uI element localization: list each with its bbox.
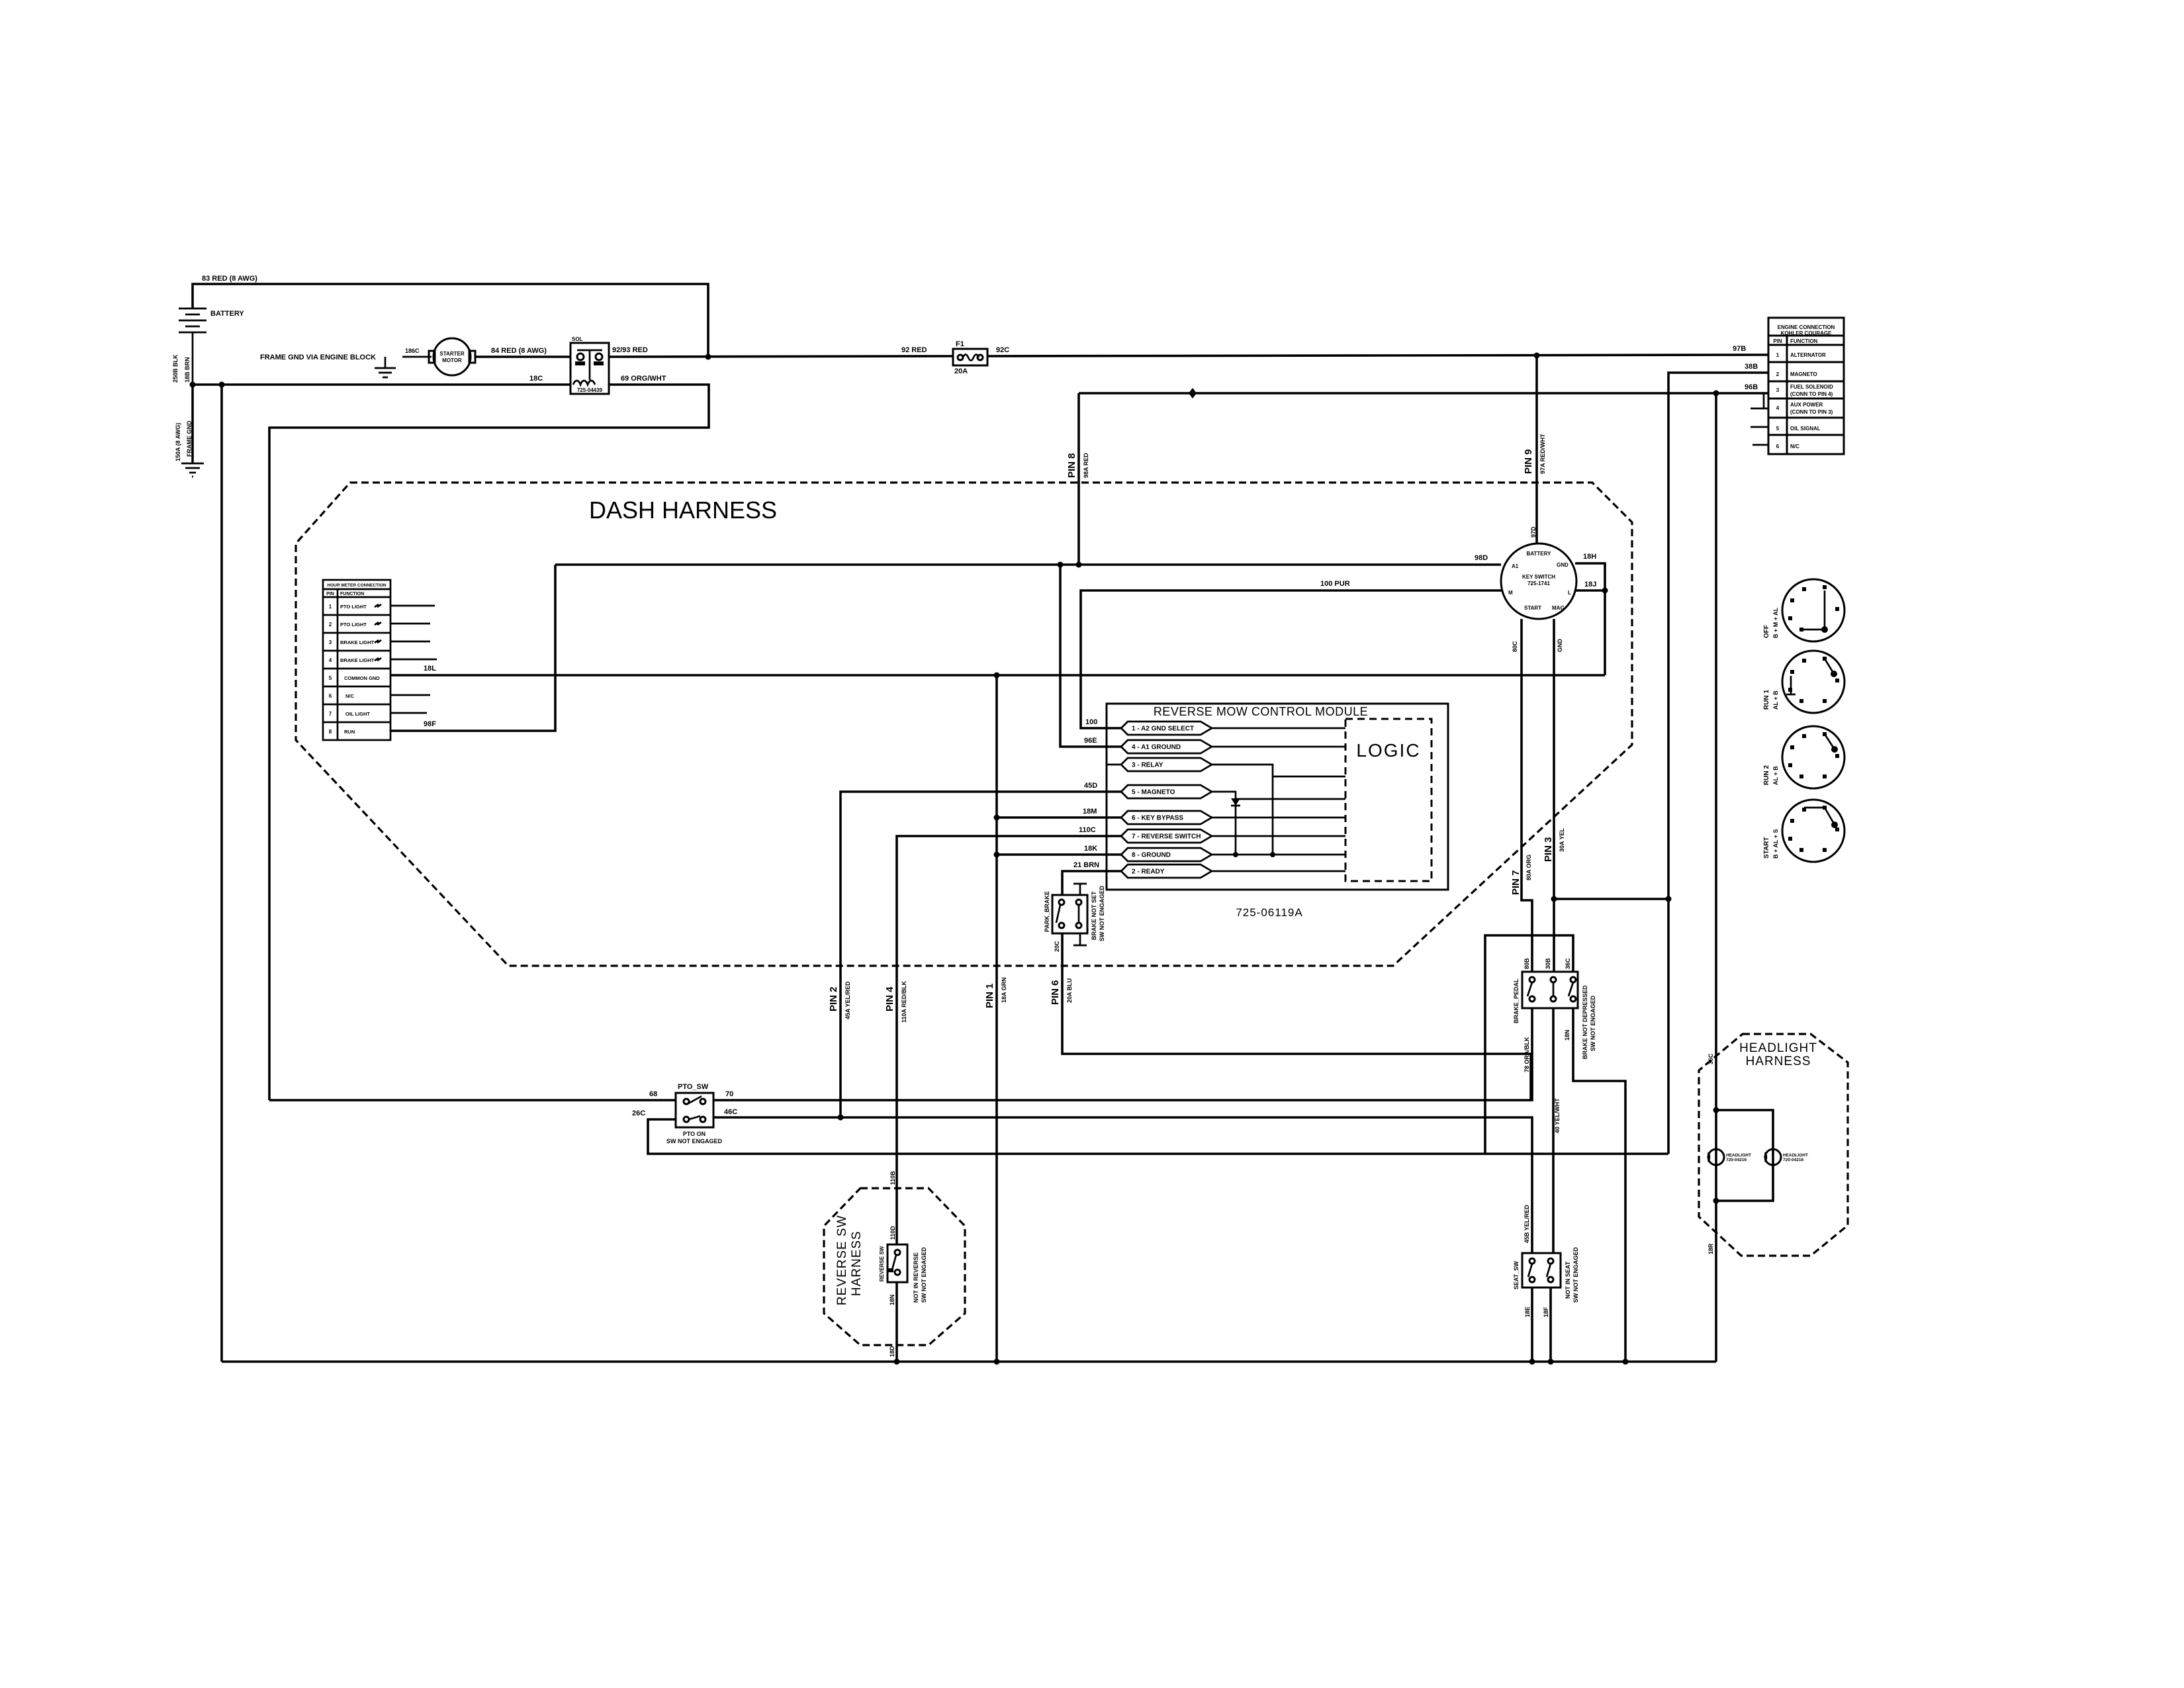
svg-text:PIN 1: PIN 1 [984,983,995,1008]
module internal wires to LOGIC [1212,727,1345,729]
svg-text:REVERSE SW: REVERSE SW [835,1215,849,1305]
svg-text:START: START [1763,837,1770,859]
svg-text:SW NOT ENGAGED: SW NOT ENGAGED [1590,995,1596,1051]
svg-text:18B BRN: 18B BRN [184,357,191,383]
svg-text:96E: 96E [1084,737,1097,745]
wire 78 ORA/BLK bottom-left lead [1524,1037,1530,1072]
seat switch leads to bottom bus [1531,1288,1533,1362]
node battery junction [190,382,196,388]
svg-text:2 - READY: 2 - READY [1132,868,1165,876]
svg-text:BRAKE NOT DEPRESSED: BRAKE NOT DEPRESSED [1582,985,1588,1059]
bottom ground bus wire [222,1360,1716,1363]
park brake switch PARK_BRAKE [1052,895,1087,933]
wire 70 to brake pedal [713,1008,1532,1100]
svg-text:4: 4 [1776,405,1780,411]
wire long left vertical to bottom [220,385,223,1362]
svg-text:45B YEL/RED: 45B YEL/RED [1524,1205,1530,1243]
wire 83 RED (8 AWG) top loop [193,284,708,357]
wire 18H (GND) [1575,563,1605,590]
svg-text:PARK_BRAKE: PARK_BRAKE [1044,891,1050,932]
dash harness outline [296,483,1632,966]
wire MAG down (PIN 3) [1553,619,1555,972]
svg-text:A1: A1 [1512,563,1519,569]
wire 38B magneto [1668,373,1768,1154]
conn to pin4 bracket [1764,393,1768,408]
headlight loop [1716,1110,1773,1201]
wire 40 YEL/WHT to seat switch [1552,1008,1555,1253]
wire 18M / 18K ground branch (PIN 1) [997,816,1121,819]
svg-text:BRAKE NOT SET: BRAKE NOT SET [1091,891,1097,940]
svg-text:BATTERY: BATTERY [210,310,244,318]
wire START down (PIN 7) [1522,619,1532,972]
PTO switch PTO_SW [676,1093,713,1127]
svg-text:PTO LIGHT: PTO LIGHT [340,604,367,610]
svg-text:OFF: OFF [1763,625,1770,638]
wire 100 PUR (M) [1081,590,1502,728]
svg-text:(CONN TO PIN 3): (CONN TO PIN 3) [1790,409,1833,415]
wire 26C to magneto bus [648,1119,1668,1154]
svg-text:725-1741: 725-1741 [1527,581,1550,586]
wire reverse switch to bottom bus [895,1282,898,1362]
svg-text:20C: 20C [1054,941,1060,952]
svg-text:80C: 80C [1512,641,1518,652]
svg-text:80B: 80B [1524,958,1530,969]
wire 46C to seat switch [713,1117,1532,1253]
svg-text:18N: 18N [1564,1029,1570,1041]
key position diagram OFF [1782,579,1844,641]
wire 92/93 RED [609,356,953,357]
svg-text:PIN 9: PIN 9 [1523,449,1534,474]
key position diagram RUN 1 [1782,651,1844,713]
svg-text:92/93 RED: 92/93 RED [612,346,648,354]
svg-text:PIN: PIN [1773,338,1782,344]
svg-text:3: 3 [329,639,332,645]
svg-text:150A (8 AWG): 150A (8 AWG) [175,423,181,461]
svg-text:REVERSE SW: REVERSE SW [879,1246,885,1282]
svg-text:L: L [1568,590,1571,596]
svg-text:97D: 97D [1530,526,1537,538]
svg-text:BRAKE LIGHT: BRAKE LIGHT [340,639,375,645]
park brake right stubs [1079,884,1081,895]
diode in module [1231,798,1240,806]
svg-text:45A YEL/RED: 45A YEL/RED [844,981,851,1019]
hour meter stub wires [390,605,435,607]
wire main power to engine table pin 1 (97B) [987,355,1768,356]
svg-text:SW NOT ENGAGED: SW NOT ENGAGED [1572,1246,1579,1303]
wire 36C right-top lead loop to magneto bus [1485,935,1573,1154]
svg-text:M: M [1508,590,1513,596]
svg-text:18K: 18K [1084,845,1097,853]
svg-text:21 BRN: 21 BRN [1073,861,1099,869]
svg-text:OIL SIGNAL: OIL SIGNAL [1790,426,1821,432]
svg-text:96B: 96B [1745,383,1758,391]
LOGIC box [1345,719,1432,881]
svg-text:186C: 186C [405,348,420,354]
svg-text:98D: 98D [1475,554,1488,562]
svg-text:B + M + AL: B + M + AL [1772,607,1779,638]
svg-text:FUNCTION: FUNCTION [340,592,364,596]
headlight harness outline [1699,1034,1848,1256]
svg-text:18N: 18N [889,1294,895,1305]
module pin 3 - RELAY [1121,758,1212,771]
key position diagram RUN 2 [1782,726,1844,788]
svg-text:46C: 46C [724,1108,737,1116]
svg-text:97A RED/WHT: 97A RED/WHT [1539,434,1546,474]
svg-text:PTO ON: PTO ON [683,1131,705,1137]
module pin 1 - A2 GND SELECT [1121,722,1212,735]
svg-text:PIN 4: PIN 4 [884,986,895,1011]
svg-text:18D: 18D [889,1346,895,1357]
wire 21 BRN to park brake [1062,871,1121,895]
svg-text:5: 5 [329,675,332,681]
svg-text:92 RED: 92 RED [901,346,927,354]
ground frame gnd below battery [191,385,194,463]
svg-text:83 RED (8 AWG): 83 RED (8 AWG) [202,275,257,283]
svg-text:BRAKE LIGHT: BRAKE LIGHT [340,657,375,663]
svg-text:PIN 8: PIN 8 [1066,453,1077,478]
solenoid 725-04439 [570,343,609,394]
svg-text:HARNESS: HARNESS [850,1231,864,1296]
svg-text:4 - A1 GROUND: 4 - A1 GROUND [1132,744,1181,751]
wire 18L common gnd [390,674,1605,677]
svg-text:18H: 18H [1583,553,1596,561]
svg-text:80A ORG: 80A ORG [1525,855,1532,880]
svg-text:B + AL + S: B + AL + S [1772,829,1779,859]
svg-text:N/C: N/C [345,693,355,699]
svg-text:SOL: SOL [572,336,583,342]
svg-text:36C: 36C [1707,1053,1714,1064]
svg-text:KEY SWITCH: KEY SWITCH [1522,574,1555,580]
svg-text:PIN 3: PIN 3 [1543,837,1554,862]
svg-text:1: 1 [1776,352,1780,358]
svg-text:FRAME GND VIA ENGINE BLOCK: FRAME GND VIA ENGINE BLOCK [260,353,376,361]
svg-text:18J: 18J [1584,581,1596,588]
svg-text:MAG: MAG [1552,605,1565,611]
svg-text:18E: 18E [1524,1307,1531,1317]
svg-text:AL + B: AL + B [1772,690,1779,710]
wire L/GND down to ground bus [1604,590,1606,675]
wire 36C long vertical from fuel solenoid line [1715,393,1717,1362]
svg-text:110B: 110B [889,1170,896,1185]
svg-text:F1: F1 [956,340,964,348]
svg-text:100 PUR: 100 PUR [1320,580,1350,588]
wire 69 ORG/WHT loop from solenoid coil to PTO 68 [269,385,709,1100]
wire magneto junction to 38B vertical [1554,898,1668,900]
svg-text:70: 70 [725,1090,733,1098]
svg-text:8: 8 [329,729,332,735]
svg-text:110C: 110C [1079,826,1096,834]
starter motor [433,338,471,375]
svg-text:REVERSE MOW CONTROL MODULE: REVERSE MOW CONTROL MODULE [1154,705,1368,718]
svg-text:26C: 26C [632,1109,645,1117]
svg-text:GND: GND [1557,639,1563,653]
svg-text:3 - RELAY: 3 - RELAY [1132,762,1163,769]
svg-text:GND: GND [1557,562,1569,568]
svg-text:SW NOT ENGAGED: SW NOT ENGAGED [921,1246,927,1303]
wire 98D (A1) [555,563,1501,566]
module pin 8 - GROUND [1121,848,1212,861]
svg-text:30A YEL: 30A YEL [1559,827,1565,852]
svg-text:18F: 18F [1543,1307,1549,1317]
wire 96B fuel solenoid [1079,392,1768,395]
svg-text:100: 100 [1085,718,1097,726]
svg-text:20A BLU: 20A BLU [1066,978,1073,1003]
svg-text:SW NOT ENGAGED: SW NOT ENGAGED [666,1138,723,1145]
svg-text:5 - MAGNETO: 5 - MAGNETO [1132,789,1175,796]
headlamp bulb [1708,1149,1724,1165]
svg-text:RUN 1: RUN 1 [1763,690,1770,710]
wire 98F run [390,565,555,731]
svg-text:38B: 38B [1745,363,1758,371]
splice on 96B [1189,388,1197,399]
wire 68 from solenoid loop to PTO [269,1099,676,1102]
svg-text:COMMON GND: COMMON GND [344,675,380,681]
svg-text:FRAME GND: FRAME GND [186,420,193,457]
svg-text:97B: 97B [1733,345,1746,353]
svg-text:45D: 45D [1084,782,1097,790]
svg-text:18L: 18L [424,665,436,673]
headlamp bulb [1765,1149,1781,1165]
svg-text:OIL LIGHT: OIL LIGHT [345,711,370,717]
wire 98A RED / PIN 8 vertical [1077,393,1080,565]
svg-text:98F: 98F [424,720,436,728]
svg-text:68: 68 [649,1090,657,1098]
svg-text:AL + B: AL + B [1772,766,1779,785]
key switch 725-1741 [1501,543,1576,619]
reverse switch REVERSE_SW [887,1244,907,1282]
svg-text:92C: 92C [996,346,1009,354]
hour meter connection table [323,580,390,740]
svg-text:ALTERNATOR: ALTERNATOR [1790,352,1826,358]
svg-text:84 RED (8 AWG): 84 RED (8 AWG) [491,347,547,355]
svg-text:69 ORG/WHT: 69 ORG/WHT [621,375,666,383]
wire 45D to PIN 2 [841,792,1121,1117]
wire 18N right-bottom lead to bottom bus [1573,1008,1625,1362]
stub n/c [1752,444,1768,446]
svg-text:98A RED: 98A RED [1083,453,1089,478]
brake pedal switch BRAKE_PEDAL [1522,972,1578,1008]
svg-text:7 - REVERSE SWITCH: 7 - REVERSE SWITCH [1132,833,1201,841]
svg-text:RUN: RUN [344,729,355,735]
svg-text:STARTER: STARTER [439,351,464,357]
svg-text:110D: 110D [889,1225,896,1240]
svg-text:PIN: PIN [326,592,334,596]
svg-text:110A RED/BLK: 110A RED/BLK [901,980,907,1023]
svg-text:MAGNETO: MAGNETO [1790,371,1817,377]
svg-text:LOGIC: LOGIC [1356,740,1420,761]
seat switch SEAT_SW [1522,1253,1561,1288]
svg-text:1: 1 [329,604,332,610]
module pin 2 - READY [1121,865,1212,878]
svg-text:PTO_SW: PTO_SW [678,1083,709,1091]
svg-text:HARNESS: HARNESS [1746,1055,1811,1068]
svg-text:HEADLIGHT: HEADLIGHT [1726,1153,1751,1158]
key position diagram START [1782,800,1844,862]
svg-text:PIN 2: PIN 2 [828,986,839,1011]
wire 18J (L) [1576,589,1605,592]
svg-text:2: 2 [329,622,332,628]
svg-text:78 ORA/BLK: 78 ORA/BLK [1524,1037,1530,1072]
svg-text:PTO LIGHT: PTO LIGHT [340,622,367,628]
svg-text:725-06119A: 725-06119A [1236,906,1302,919]
svg-text:720-04216: 720-04216 [1783,1158,1803,1162]
svg-text:6: 6 [329,693,332,699]
svg-text:HEADLIGHT: HEADLIGHT [1783,1153,1808,1158]
svg-text:30B: 30B [1545,958,1551,969]
svg-text:FUNCTION: FUNCTION [1790,338,1818,344]
svg-text:18R: 18R [1707,1243,1714,1254]
wire 96E vertical (A1 to module) [1060,565,1121,747]
svg-text:6 - KEY BYPASS: 6 - KEY BYPASS [1132,815,1183,822]
svg-text:5: 5 [1776,426,1780,432]
module pin 5 - MAGNETO [1121,785,1212,798]
battery [179,308,206,385]
svg-text:BRAKE_PEDAL: BRAKE_PEDAL [1513,978,1520,1023]
reverse sw harness outline [824,1188,965,1345]
svg-text:18A GRN: 18A GRN [1001,977,1007,1003]
svg-text:NOT IN REVERSE: NOT IN REVERSE [913,1252,919,1303]
svg-text:DASH HARNESS: DASH HARNESS [589,496,777,524]
module pin 7 - REVERSE SWITCH [1121,829,1212,843]
wire 20C PIN 6 20A BLU [1062,933,1531,1100]
svg-text:1 - A2 GND SELECT: 1 - A2 GND SELECT [1132,726,1194,733]
svg-text:(CONN TO PIN 4): (CONN TO PIN 4) [1790,391,1833,397]
svg-text:18C: 18C [529,375,543,383]
svg-text:7: 7 [329,711,332,717]
svg-text:4: 4 [329,657,332,663]
svg-text:FUEL SOLENOID: FUEL SOLENOID [1790,384,1833,390]
svg-text:HOUR METER CONNECTION: HOUR METER CONNECTION [327,583,387,588]
svg-text:RUN 2: RUN 2 [1763,765,1770,785]
svg-text:40 YEL/WHT: 40 YEL/WHT [1554,1098,1561,1133]
svg-text:250B BLK: 250B BLK [172,354,179,383]
svg-text:ENGINE CONNECTION: ENGINE CONNECTION [1778,324,1835,330]
svg-text:SEAT_SW: SEAT_SW [1513,1261,1520,1289]
wire battery ground bus to solenoid coil (18C) [193,383,570,386]
svg-text:18M: 18M [1083,808,1097,816]
stub oil signal [1751,426,1768,428]
svg-text:20A: 20A [954,367,968,375]
svg-text:START: START [1524,605,1541,611]
PIN 9 wire 97A RED/WHT to key switch [1535,355,1538,544]
svg-text:AUX POWER: AUX POWER [1790,402,1823,408]
svg-text:36C: 36C [1565,958,1571,969]
svg-text:KOHLER COURAGE: KOHLER COURAGE [1781,330,1833,336]
svg-text:6: 6 [1776,444,1780,449]
svg-text:8 - GROUND: 8 - GROUND [1132,852,1171,859]
reverse mow control module box [1107,704,1448,890]
svg-text:PIN 6: PIN 6 [1050,980,1061,1005]
svg-text:720-04216: 720-04216 [1726,1158,1747,1162]
svg-text:3: 3 [1776,387,1780,393]
svg-text:BATTERY: BATTERY [1527,551,1552,557]
engine connection table KOHLER COURAGE [1768,318,1844,454]
svg-text:SW NOT ENGAGED: SW NOT ENGAGED [1099,885,1105,941]
svg-text:N/C: N/C [1790,444,1799,449]
svg-text:PIN 7: PIN 7 [1510,870,1522,895]
svg-text:HEADLIGHT: HEADLIGHT [1739,1041,1817,1055]
svg-text:725-04439: 725-04439 [577,387,603,393]
svg-text:2: 2 [1776,371,1780,377]
svg-text:NOT IN SEAT: NOT IN SEAT [1565,1261,1571,1299]
module pin 6 - KEY BYPASS [1121,811,1212,824]
svg-text:MOTOR: MOTOR [442,357,462,363]
wire 110C to PIN 4 / reverse switch [897,836,1121,1244]
module pin 4 - A1 GROUND [1121,740,1212,753]
